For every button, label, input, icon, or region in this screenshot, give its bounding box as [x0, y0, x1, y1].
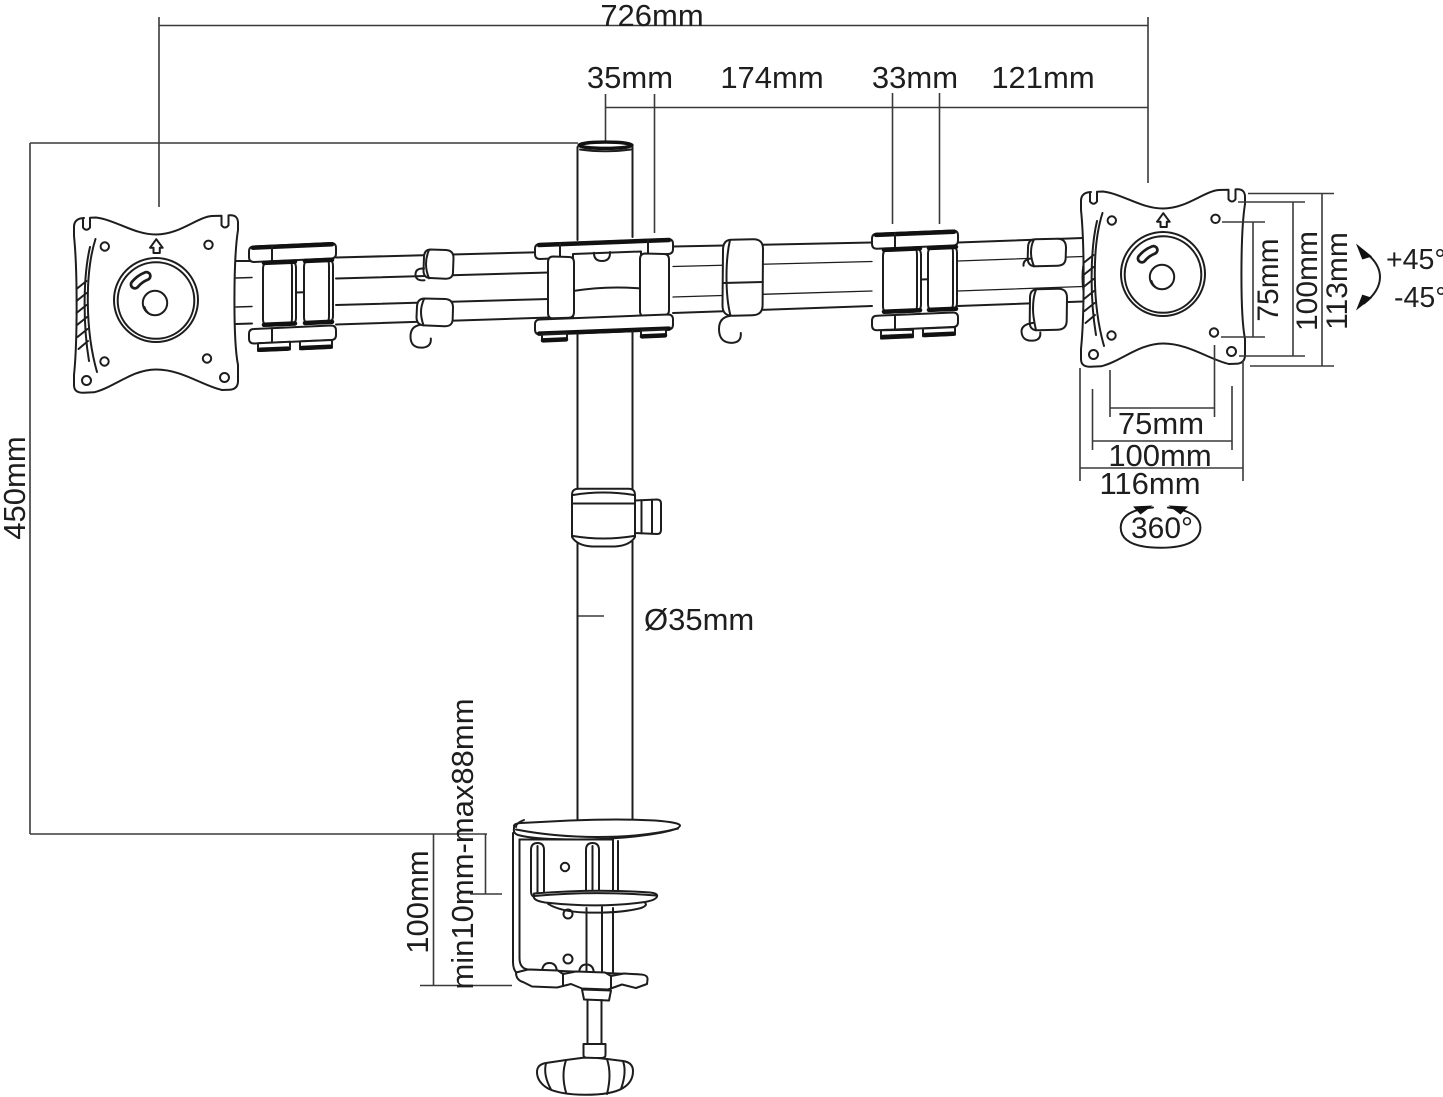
right H-clamp bottom lugs — [881, 327, 955, 339]
svg-text:+45°: +45° — [1386, 244, 1443, 276]
svg-text:75mm: 75mm — [1252, 238, 1285, 321]
rotation 360 symbol — [1121, 506, 1201, 548]
svg-text:Ø35mm: Ø35mm — [644, 602, 754, 637]
dimension min10mm-max88mm desk thickness — [445, 698, 502, 989]
centre joint top flange — [535, 239, 673, 259]
svg-text:113mm: 113mm — [1321, 232, 1354, 330]
orientation arrow — [150, 239, 163, 253]
centre joint left pillar — [548, 257, 574, 319]
left arm stub tube — [236, 261, 252, 324]
bracket lower bumps — [542, 963, 557, 973]
svg-text:116mm: 116mm — [1099, 466, 1200, 501]
svg-text:174mm: 174mm — [720, 60, 823, 95]
pole top cap — [579, 142, 632, 151]
centre rotation disc — [114, 258, 198, 342]
upper thin tube left span — [336, 252, 549, 279]
dimension 75mm horizontal bottom — [1110, 345, 1215, 441]
dimension 100mm clamp height — [400, 834, 512, 986]
svg-text:360°: 360° — [1131, 512, 1193, 545]
plate outline — [74, 215, 238, 392]
label pole diameter Ø35mm — [577, 602, 754, 637]
dimension 100mm horizontal bottom — [1093, 386, 1233, 473]
right arm thick tube — [673, 243, 872, 314]
clamp screw nut — [582, 990, 611, 1001]
svg-text:75mm: 75mm — [1118, 406, 1204, 441]
rotation +45/-45 symbol — [1356, 244, 1443, 315]
svg-text:121mm: 121mm — [991, 60, 1094, 95]
left H-clamp bottom lugs — [258, 340, 332, 351]
dimension 450mm pole height — [0, 143, 578, 834]
left H-clamp pillars — [263, 259, 333, 326]
right H-clamp bottom flange — [872, 313, 958, 331]
curved slot — [135, 276, 147, 285]
dimension 75mm vertical right — [1221, 222, 1285, 337]
svg-text:min10mm-max88mm: min10mm-max88mm — [445, 698, 480, 989]
lower thin tube left span — [336, 299, 549, 325]
clamp threaded rod — [584, 1000, 606, 1058]
svg-text:35mm: 35mm — [587, 60, 673, 95]
clamp top plate — [514, 820, 680, 840]
clamp screw column — [587, 907, 603, 975]
dimension 35mm pole offset — [587, 60, 1148, 233]
clamp bottom flange — [516, 970, 648, 990]
left H-clamp top flange — [249, 243, 336, 262]
dimension 100mm vertical right — [1238, 202, 1324, 356]
collar thumb screw — [635, 500, 661, 535]
right stub tube to plate — [958, 238, 1083, 306]
cable clip upper-right — [1023, 239, 1066, 267]
VESA holes outer corners — [82, 376, 91, 385]
svg-text:100mm: 100mm — [1291, 231, 1324, 331]
svg-text:33mm: 33mm — [872, 60, 958, 95]
centre joint body sleeve — [573, 252, 641, 334]
dimension 113mm vertical right — [1248, 194, 1354, 367]
middle shelf — [534, 891, 657, 913]
svg-text:-45°: -45° — [1394, 282, 1443, 314]
pole height collar ring — [572, 489, 635, 547]
centre joint bottom lugs — [542, 330, 666, 341]
svg-text:726mm: 726mm — [600, 0, 703, 33]
bracket holes — [561, 863, 569, 871]
right VESA plate — [1081, 189, 1245, 366]
dimension 726mm overall width — [159, 0, 1148, 207]
pole lower segment — [578, 331, 633, 821]
plate side wall — [88, 239, 97, 372]
cable clip lower-left — [411, 299, 454, 348]
svg-text:450mm: 450mm — [0, 436, 32, 539]
centre joint bottom flange — [535, 315, 673, 335]
centre joint right pillar — [640, 254, 669, 317]
cable clip upper-left — [416, 250, 454, 281]
pole upper segment — [578, 147, 633, 240]
dimension 116mm horizontal bottom — [1080, 360, 1243, 501]
plate boss ellipse — [1083, 250, 1088, 306]
VESA holes inner 75mm — [101, 242, 109, 250]
cable clip lower-right — [1022, 289, 1068, 341]
right H-clamp top flange — [872, 231, 958, 249]
svg-text:100mm: 100mm — [400, 850, 435, 953]
bracket slots — [531, 843, 599, 898]
left VESA plate — [74, 215, 238, 392]
centre hub — [143, 291, 167, 315]
left H-clamp bottom flange — [249, 326, 336, 344]
clamp C-bracket wall — [513, 833, 645, 982]
cable clip centre-right — [719, 239, 763, 343]
right H-clamp pillars — [883, 246, 957, 313]
dimension 33mm clamp width — [872, 60, 958, 224]
clamp knob handle — [537, 1058, 633, 1095]
